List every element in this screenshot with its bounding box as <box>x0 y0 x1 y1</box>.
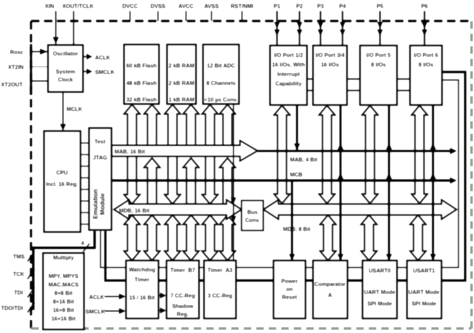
svg-text:Clock: Clock <box>58 78 74 84</box>
wire watchdog to timer B7 clock lower <box>159 310 162 312</box>
wire port34 to port5 lower <box>347 90 360 92</box>
svg-text:SMCLK: SMCLK <box>95 70 115 76</box>
wire emulation module down to jtag rail <box>93 231 96 249</box>
svg-text:TDO/TDI: TDO/TDI <box>1 306 23 312</box>
bus arrow MDB to timera right <box>220 215 236 261</box>
svg-text:Comparator: Comparator <box>314 282 346 288</box>
wire port34 to port5 upper <box>347 78 360 80</box>
pin tick AVCC <box>185 11 187 21</box>
svg-text:Oscillator: Oscillator <box>53 52 79 58</box>
svg-text:MDB, 8 Bit: MDB, 8 Bit <box>283 227 311 233</box>
svg-text:Interrupt: Interrupt <box>277 72 300 78</box>
ram block <box>167 45 196 105</box>
bus arrow port6 to MDB8 <box>412 106 428 204</box>
wire XT2IN into oscillator <box>30 66 48 68</box>
svg-text:CPU: CPU <box>56 171 68 177</box>
svg-text:UART Mode: UART Mode <box>364 290 395 296</box>
svg-text:ACLK: ACLK <box>95 55 110 61</box>
svg-text:Timer: Timer <box>135 278 151 284</box>
svg-text:MDB, 16 Bit: MDB, 16 Bit <box>119 208 150 214</box>
svg-text:XT2OUT: XT2OUT <box>1 83 23 89</box>
svg-text:Reset: Reset <box>282 295 297 301</box>
wire thick rail emulation to usart1/port6 right side <box>105 72 465 281</box>
hardware multiplier block <box>43 253 84 330</box>
svg-text:AVSS: AVSS <box>204 4 219 10</box>
svg-text:ACLK: ACLK <box>89 295 104 301</box>
bus MAB 16-bit hollow arrow <box>112 141 258 162</box>
wire port12 to MAB4 <box>296 105 298 151</box>
svg-text:16×8 Bit: 16×8 Bit <box>53 308 74 314</box>
svg-text:USART0: USART0 <box>369 269 391 275</box>
io port 5 block <box>360 46 397 106</box>
svg-text:TMS: TMS <box>13 255 25 261</box>
wire ACLK into watchdog <box>105 296 121 298</box>
cpu block <box>44 131 81 232</box>
wire port34 to comparator <box>339 105 341 261</box>
bus arrow flash left column to box <box>124 105 140 147</box>
svg-text:I/O Port 5: I/O Port 5 <box>366 53 390 59</box>
wire port12 to port34 lower <box>307 90 313 92</box>
wire SMCLK into watchdog <box>105 310 121 312</box>
bus arrow port5 to MDB8 <box>362 106 378 204</box>
bus MCB line <box>112 179 454 181</box>
chip outline dashed border top <box>31 20 471 22</box>
svg-text:RST/NMI: RST/NMI <box>231 4 254 10</box>
svg-text:I/O Port 3/4: I/O Port 3/4 <box>315 53 345 59</box>
wire P3 into port34 <box>318 11 324 46</box>
svg-text:15 / 16 Bit: 15 / 16 Bit <box>129 296 155 302</box>
svg-text:XT2IN: XT2IN <box>8 65 24 71</box>
svg-text:TCK: TCK <box>13 272 24 278</box>
svg-text:60 kB Flash: 60 kB Flash <box>126 64 157 70</box>
svg-text:USART1: USART1 <box>413 269 435 275</box>
bus arrow MDB8 to usart1 <box>410 215 426 261</box>
svg-text:Capability: Capability <box>275 82 302 88</box>
wire P4 into port34 <box>340 11 346 46</box>
svg-text:32 kB Flash: 32 kB Flash <box>126 98 157 104</box>
wire port5 to port6 upper <box>397 78 410 80</box>
bus arrow port12 to MDB8 <box>274 106 290 204</box>
power-on reset block <box>274 261 306 319</box>
bus MAB 4-bit line <box>258 150 455 152</box>
svg-text:UART Mode: UART Mode <box>408 290 439 296</box>
svg-text:TDI: TDI <box>14 291 23 297</box>
wire pin rail left of oscillator <box>30 44 32 95</box>
svg-text:XOUT/TCLK: XOUT/TCLK <box>62 4 93 10</box>
comparator A block <box>313 261 348 319</box>
wire SMCLK out of oscillator <box>83 71 89 73</box>
wire ADC to timer A3 <box>233 104 235 261</box>
svg-text:P3: P3 <box>317 4 324 10</box>
svg-text:16 I/Os, With: 16 I/Os, With <box>272 63 306 69</box>
wire XT2OUT from oscillator <box>30 80 48 82</box>
svg-text:Multiply: Multiply <box>53 256 75 262</box>
bus arrow port34 to MDB8 <box>319 106 335 204</box>
pin tick TDO/TDI <box>28 303 35 313</box>
wire MCLK oscillator to CPU <box>62 92 64 131</box>
svg-text:16×16 Bit: 16×16 Bit <box>51 317 75 323</box>
svg-text:Watchdog: Watchdog <box>129 268 155 274</box>
bus arrow ram left column MAB to MDB <box>165 156 181 204</box>
wire thin rail emulation to usart1/port6 right side <box>101 80 459 268</box>
svg-text:Emulation: Emulation <box>92 189 99 219</box>
bus arrow MDB8 to comparator <box>320 215 336 261</box>
bus arrow flash right column to MAB <box>144 158 160 204</box>
svg-text:I/O Port 6: I/O Port 6 <box>414 53 438 59</box>
io port 1/2 block <box>270 46 307 106</box>
svg-text:MAC,MACS: MAC,MACS <box>48 283 79 289</box>
svg-text:on: on <box>286 287 293 293</box>
svg-text:Timer_A3: Timer_A3 <box>208 268 233 274</box>
wire XOUT out of oscillator <box>71 11 77 49</box>
wire P2 into port12 <box>297 11 303 46</box>
pin tick AVSS <box>211 11 213 21</box>
pin tick TCK <box>28 269 35 279</box>
usart1 block <box>407 261 442 319</box>
svg-text:7 CC-Reg: 7 CC-Reg <box>170 294 195 300</box>
timer A3 block <box>204 261 236 319</box>
svg-text:Rosc: Rosc <box>10 50 23 56</box>
pin tick TMS <box>28 252 35 262</box>
bus arrow MDB to timerb left <box>165 215 181 261</box>
flash memory block <box>124 45 159 105</box>
bus arrow MDB to timerb right <box>183 215 199 261</box>
svg-text:MCLK: MCLK <box>67 107 83 113</box>
svg-text:AVCC: AVCC <box>178 4 193 10</box>
wire Rosc into oscillator <box>30 49 48 55</box>
io port 6 block <box>410 46 442 106</box>
svg-text:SPI Mode: SPI Mode <box>367 302 392 308</box>
wire P1 into port12 <box>274 11 280 46</box>
svg-text:8 Channels: 8 Channels <box>206 81 235 87</box>
wire port5 to usart0 <box>388 105 390 261</box>
svg-text:8 I/Os: 8 I/Os <box>371 63 386 69</box>
svg-text:Bus: Bus <box>247 210 257 216</box>
svg-text:JTAG: JTAG <box>93 156 107 162</box>
svg-text:A: A <box>328 293 332 299</box>
svg-text:Incl. 16 Reg.: Incl. 16 Reg. <box>46 182 79 188</box>
svg-text:2 kB RAM: 2 kB RAM <box>169 81 195 87</box>
svg-text:P5: P5 <box>377 4 384 10</box>
wire port5 to port6 lower <box>397 90 410 92</box>
bus MDB 8-bit hollow arrow <box>264 200 457 219</box>
svg-text:16 I/Os: 16 I/Os <box>321 63 339 69</box>
svg-text:System: System <box>56 70 76 76</box>
bus arrow MDB to watchdog left <box>124 215 140 261</box>
wire ACLK out of oscillator <box>83 56 89 58</box>
bus converter block <box>242 201 264 231</box>
svg-text:8×8 Bit: 8×8 Bit <box>54 291 72 297</box>
svg-text:P4: P4 <box>339 4 347 10</box>
jtag 4-wire slash tick <box>83 244 90 253</box>
bus arrow flash right column to box <box>144 105 160 147</box>
bus arrow adc left column to box <box>202 105 218 147</box>
svg-text:MCB: MCB <box>290 172 303 178</box>
wire bundle CPU to Test/JTAG <box>81 142 90 144</box>
svg-text:12 Bit ADC: 12 Bit ADC <box>207 64 235 70</box>
bus MDB 16-bit hollow arrow <box>114 200 242 219</box>
chip outline dashed border left <box>30 21 32 329</box>
svg-text:DVCC: DVCC <box>122 4 138 10</box>
wire port12 to port34 upper <box>307 78 313 80</box>
wire MCB to power-on-reset <box>291 181 293 261</box>
svg-text:I/O Port 1/2: I/O Port 1/2 <box>274 53 303 59</box>
wire P5 into port5 <box>377 11 383 46</box>
svg-text:48 kB Flash: 48 kB Flash <box>126 81 157 87</box>
bus arrow MDB8 to usart0 <box>361 215 377 261</box>
test jtag / emulation module block <box>89 128 112 230</box>
svg-text:2 kB RAM: 2 kB RAM <box>169 64 195 70</box>
svg-text:P1: P1 <box>274 4 281 10</box>
svg-text:3 CC-Reg: 3 CC-Reg <box>208 294 233 300</box>
bus arrow adc right column to MAB <box>220 158 236 204</box>
bus arrow ram right column to MAB <box>183 158 199 204</box>
svg-text:1 kB RAM: 1 kB RAM <box>169 98 195 104</box>
oscillator / system clock block <box>48 45 83 92</box>
svg-text:<10 µs Conv.: <10 µs Conv. <box>204 98 238 104</box>
chip outline dashed border right <box>470 21 473 329</box>
wire watchdog to timer B7 clock upper <box>159 295 162 297</box>
svg-text:SPI Mode: SPI Mode <box>412 302 437 308</box>
bus arrow MDB to watchdog right <box>144 215 160 261</box>
bus arrow MDB to timera left <box>202 215 218 261</box>
bus arrow adc right column to box <box>220 105 236 147</box>
svg-text:P6: P6 <box>421 4 428 10</box>
svg-text:Test: Test <box>95 140 106 146</box>
svg-text:Conv.: Conv. <box>245 218 260 224</box>
svg-text:MAB, 16 Bit: MAB, 16 Bit <box>115 149 146 155</box>
watchdog timer block <box>126 261 159 319</box>
bus arrow adc left column MAB to MDB <box>202 156 218 204</box>
svg-text:SMCLK: SMCLK <box>86 310 106 316</box>
svg-text:XIN: XIN <box>45 4 54 10</box>
timer B7 block <box>167 261 200 319</box>
svg-text:DVSS: DVSS <box>151 4 166 10</box>
svg-text:Shadow: Shadow <box>172 304 194 310</box>
bus arrow ram right column to box <box>183 105 199 147</box>
svg-text:Reg.: Reg. <box>177 312 189 318</box>
usart0 block <box>363 261 398 319</box>
svg-text:MPY, MPYS: MPY, MPYS <box>49 274 79 280</box>
svg-text:Module: Module <box>99 193 106 215</box>
pin tick RST/NMI <box>241 11 243 21</box>
svg-text:8 I/Os: 8 I/Os <box>419 63 434 69</box>
adc12 block <box>203 45 239 105</box>
io port 3/4 block <box>313 46 347 106</box>
wire port6 to usart1 <box>432 105 434 261</box>
wire P6 into port6 <box>422 11 428 46</box>
bus arrow ram left column to box <box>165 105 181 147</box>
bus arrow flash left column MAB to MDB <box>124 156 140 204</box>
svg-text:MAB, 4 Bit: MAB, 4 Bit <box>290 158 318 164</box>
svg-text:8×16 Bit: 8×16 Bit <box>53 300 74 306</box>
pin tick DVSS <box>157 11 159 21</box>
svg-text:Power: Power <box>281 279 298 285</box>
wire XIN into oscillator <box>53 11 59 45</box>
chip outline dashed border bottom <box>31 327 471 330</box>
pin tick TDI <box>28 288 35 298</box>
svg-text:Timer_B7: Timer_B7 <box>170 268 195 274</box>
svg-text:P2: P2 <box>296 4 303 10</box>
pin tick DVCC <box>129 11 131 21</box>
wire JTAG 4-wire rail horizontal <box>33 248 94 310</box>
